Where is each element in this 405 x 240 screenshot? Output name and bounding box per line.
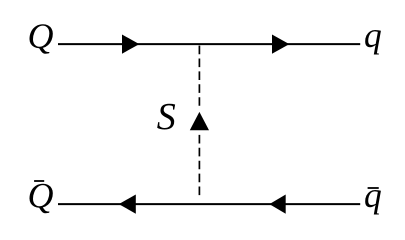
arrow bottom-left (leftward) [119,195,136,214]
wire: bottom fermion line qbar->Qbar [58,203,360,205]
wire: scalar propagator S (dashed) [198,46,200,107]
svg-text:S: S [157,96,176,138]
wire: scalar propagator S (dashed, lower half) [198,135,200,196]
arrow bottom-right (leftward) [269,195,285,214]
overline of Qbar [34,180,44,182]
arrow top-left (rightward) [122,35,139,54]
svg-text:Q: Q [28,16,54,56]
svg-text:q: q [364,15,382,55]
arrow scalar (upward) [190,112,209,130]
arrow top-right (rightward) [272,35,289,54]
wire: top fermion line Q->q [58,43,360,45]
svg-text:q: q [364,175,382,215]
overline of qbar [368,187,379,189]
